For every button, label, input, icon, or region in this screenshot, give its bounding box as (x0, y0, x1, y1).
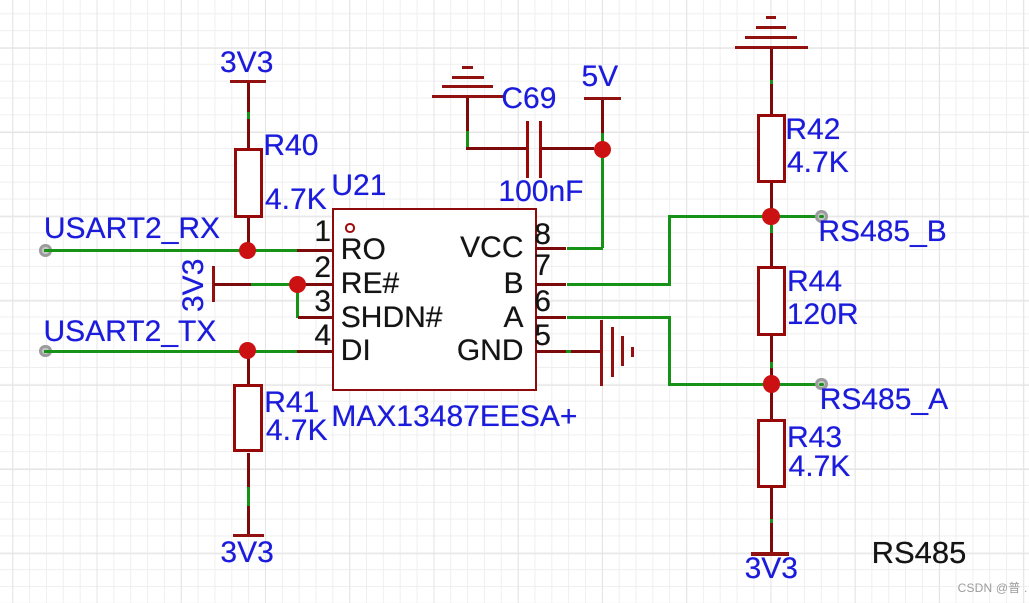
earth ground (top middle) bar1 (462, 66, 473, 69)
pin number 7 (534, 251, 551, 281)
resistor R43 designator (787, 423, 842, 453)
wire B vertical riser (668, 215, 671, 286)
wire R42 to node B (770, 183, 773, 217)
pin name VCC (460, 233, 523, 263)
port dot RS485_B (815, 210, 827, 222)
pin name RO (341, 235, 386, 265)
wire node to R41 (247, 351, 250, 385)
wire R40 to node (247, 218, 250, 250)
pin number 2 (314, 253, 331, 283)
capacitor C69 right plate (539, 121, 543, 178)
resistor R43 value 4.7K (789, 452, 851, 482)
pin 4 line (297, 350, 333, 353)
resistor R44 body (757, 266, 786, 336)
pin name GND (457, 336, 524, 366)
resistor R40 value 4.7K (265, 185, 327, 215)
resistor R44 value 120R (787, 300, 859, 330)
earth ground (top middle) bar4 (432, 95, 503, 98)
resistor R40 designator (263, 131, 318, 161)
earth ground (top middle) bar3 (442, 85, 493, 88)
net label RS485_A (820, 385, 948, 415)
pin 8 line (535, 247, 566, 250)
resistor R42 designator (785, 115, 840, 145)
earth ground (pin5) bar3 (621, 336, 624, 365)
port dot RS485_A (815, 378, 827, 390)
junction node B (762, 208, 779, 225)
resistor R41 designator (264, 388, 319, 418)
wire nub green below node B (770, 225, 773, 233)
earth ground (top right) bar1 (766, 16, 775, 19)
pin number 3 (314, 287, 331, 317)
pin 6 line (535, 316, 566, 319)
resistor R41 body (233, 384, 263, 453)
power 3V3 (bottom left) bar (233, 534, 263, 537)
wire node A to R43 (770, 384, 773, 419)
power 3V3 (top left) label (220, 48, 273, 78)
pin 7 line (535, 283, 566, 286)
wire 3V3 to pin2 (251, 283, 298, 286)
pin number 5 (534, 321, 551, 351)
resistor R44 designator (787, 267, 842, 297)
resistor R43 body (757, 419, 786, 488)
wire nub green below R43 (770, 519, 773, 523)
junction pin2 (289, 276, 306, 293)
earth ground (pin5) bar2 (611, 327, 614, 377)
capacitor C69 value 100nF (498, 177, 583, 207)
IC U21 body (332, 208, 537, 391)
pin number 6 (534, 287, 551, 317)
wire R43 to 3V3 (770, 488, 773, 554)
wire ground to C69 horizontal (466, 147, 526, 150)
wire C69 to 5V (542, 147, 594, 150)
pin 5 line (535, 350, 601, 353)
sheet title RS485 (872, 537, 967, 568)
wire node B to R44 (770, 225, 773, 266)
junction USART2_RX / R40 (239, 242, 256, 259)
IC U21 part number MAX13487EESA+ (331, 402, 577, 432)
wire R44 to node A (770, 336, 773, 384)
capacitor C69 left plate (526, 121, 530, 178)
watermark CSDN (958, 582, 1028, 594)
wire 5V to pin8 vertical (601, 149, 604, 248)
wire USART2_RX (44, 249, 297, 252)
resistor R42 value 4.7K (787, 148, 849, 178)
wire nub green on ground stem (770, 80, 773, 84)
wire A vertical dropper (668, 316, 671, 385)
wire pin8 to 5V (567, 247, 604, 250)
pin1 indicator circle (345, 223, 354, 232)
net label RS485_B (818, 217, 946, 247)
pin number 8 (534, 220, 551, 250)
pin name DI (341, 336, 371, 366)
power 5V bar (584, 97, 622, 100)
wire end blob RS485_A (819, 383, 824, 386)
power 5V label (582, 62, 619, 92)
pin name B (503, 269, 523, 299)
power 3V3 (bottom right) label (745, 554, 798, 584)
wire pin2 to pin3 (296, 284, 299, 318)
pin 1 line (297, 249, 333, 252)
wire pin7 B horizontal (567, 283, 672, 286)
earth ground stem (466, 98, 469, 131)
net label USART2_TX (44, 317, 217, 347)
port dot USART2_RX (39, 244, 51, 256)
wire nub green on pin5 (566, 350, 571, 353)
wire ground to C69 vertical green (466, 131, 469, 150)
earth ground (top middle) bar2 (452, 76, 484, 79)
junction 5V / C69 / VCC (594, 141, 611, 158)
wire nub green below R41 (247, 487, 250, 506)
pin name RE# (341, 269, 399, 299)
power 3V3 (bottom right) bar (751, 552, 789, 555)
pin 2 line (298, 283, 333, 286)
wire pin6 A horizontal (567, 316, 672, 319)
earth ground (top right) bar3 (745, 36, 797, 39)
power 3V3 (pin2) stem (214, 283, 251, 286)
pin name SHDN# (341, 303, 443, 333)
power 3V3 (top left) bar (230, 80, 266, 83)
wire R41 to 3V3 (247, 453, 250, 535)
resistor R40 body (234, 148, 264, 219)
earth ground (top right) stem (770, 49, 773, 114)
resistor R41 value 4.7K (266, 416, 328, 446)
earth ground (pin5) bar1 (600, 320, 603, 386)
wire end blob RS485_B (819, 215, 824, 218)
wire nub green on 5V stem (601, 133, 604, 143)
wire USART2_TX (44, 350, 297, 353)
earth ground (top right) bar4 (735, 46, 807, 49)
wire nub green on 3V3 stem (247, 112, 250, 119)
junction USART2_TX / R41 (239, 342, 256, 359)
pin name A (503, 303, 523, 333)
earth ground (pin5) bar4 (631, 347, 634, 357)
pin 3 line (298, 316, 333, 319)
wire A bottom horizontal to RS485_A (668, 383, 818, 386)
port dot USART2_TX (39, 345, 51, 357)
IC U21 designator (331, 171, 386, 201)
power 3V3 (pin2) bar (212, 266, 215, 302)
net label USART2_RX (44, 214, 220, 244)
earth ground (top right) bar2 (756, 26, 786, 29)
wire B top horizontal to RS485_B (668, 215, 818, 218)
capacitor C69 designator (501, 84, 556, 114)
resistor R42 body (757, 114, 786, 183)
wire nub green above node A (770, 362, 773, 368)
junction node A (763, 375, 780, 392)
power 3V3 (pin2) rotated label (179, 258, 209, 311)
pin number 1 (314, 217, 331, 247)
power 5V stem (601, 100, 604, 133)
power 3V3 (top left) stem (247, 83, 250, 148)
pin number 4 (314, 321, 331, 351)
power 3V3 (bottom left) label (220, 538, 273, 568)
